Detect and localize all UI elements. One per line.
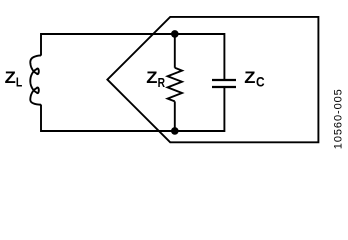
- svg-text:Z: Z: [244, 68, 255, 87]
- wire: left branch bottom + bottom rail: [41, 105, 224, 132]
- wire: left branch top + top rail: [41, 34, 224, 56]
- wire: capacitor top lead: [223, 33, 225, 79]
- wire: capacitor bottom lead: [223, 88, 225, 132]
- junction dot: top node: [171, 30, 179, 38]
- svg-text:10560-005: 10560-005: [333, 89, 345, 149]
- junction dot: bottom node: [171, 127, 179, 135]
- wire: resistor top lead: [174, 34, 176, 68]
- svg-text:Z: Z: [146, 68, 157, 87]
- capacitor ZC bottom plate: [212, 86, 236, 88]
- capacitor ZC top plate: [212, 79, 236, 81]
- wire: resistor bottom lead: [174, 101, 176, 131]
- zoom callout pentagon: [107, 17, 318, 142]
- svg-text:C: C: [256, 75, 265, 90]
- svg-text:L: L: [16, 75, 22, 90]
- resistor ZR (zigzag): [168, 68, 182, 102]
- svg-text:Z: Z: [5, 68, 16, 87]
- svg-text:R: R: [158, 75, 166, 90]
- inductor ZL (coil symbol): [30, 55, 41, 104]
